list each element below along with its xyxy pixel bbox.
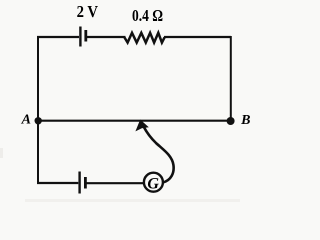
- label 0.4 ohm: [132, 7, 163, 26]
- svg-text:B: B: [240, 113, 250, 128]
- svg-text:0.4 Ω: 0.4 Ω: [132, 7, 163, 26]
- wire: curved jockey lead from galvanometer to arrow: [142, 122, 174, 182]
- wire: top side right segment: [164, 36, 231, 38]
- battery cell bottom: short plate: [84, 177, 87, 189]
- svg-text:2 V: 2 V: [77, 3, 99, 21]
- battery cell 2V: short plate: [84, 30, 87, 42]
- wire: left vertical (top corner to A to bottom corner): [37, 36, 39, 183]
- wire: bottom side left segment: [37, 182, 78, 184]
- faint scan smudge left edge: [0, 148, 3, 158]
- wire: bottom segment battery to galvanometer: [87, 182, 144, 184]
- wire: right vertical down to B: [230, 36, 232, 120]
- wire: middle A to B: [38, 120, 230, 122]
- wire: top side middle segment: [87, 36, 126, 38]
- label 2 V: [77, 3, 99, 21]
- node A (junction dot): [35, 117, 42, 124]
- svg-text:G: G: [147, 176, 159, 193]
- node B (junction dot): [227, 117, 235, 125]
- faint scan smudge bottom edge: [25, 199, 240, 202]
- resistor 0.4 ohm (zigzag): [125, 33, 165, 43]
- svg-text:A: A: [21, 113, 31, 128]
- arrowhead pointing at wire AB: [135, 120, 148, 132]
- galvanometer G (circle): [144, 173, 163, 192]
- battery cell bottom: long plate: [78, 172, 80, 194]
- battery cell 2V: long plate: [79, 27, 81, 47]
- wire: top side left segment: [37, 36, 79, 38]
